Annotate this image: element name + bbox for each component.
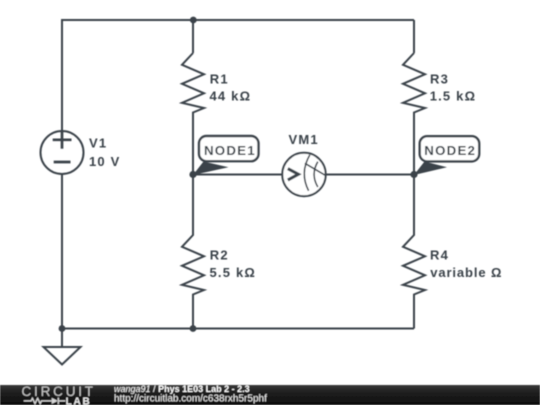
svg-text:R1: R1	[210, 72, 229, 87]
svg-text:10 V: 10 V	[89, 154, 121, 169]
svg-text:VM1: VM1	[289, 132, 319, 147]
svg-text:NODE2: NODE2	[424, 143, 476, 158]
svg-text:1.5 kΩ: 1.5 kΩ	[430, 88, 477, 103]
svg-text:NODE1: NODE1	[204, 143, 256, 158]
svg-text:variable Ω: variable Ω	[430, 265, 502, 280]
svg-text:wanga91 / Phys 1E03 Lab 2 - 2.: wanga91 / Phys 1E03 Lab 2 - 2.3	[114, 384, 250, 394]
svg-text:V1: V1	[89, 136, 107, 151]
svg-text:R2: R2	[210, 248, 229, 263]
svg-text:R3: R3	[430, 72, 449, 87]
svg-text:R4: R4	[430, 248, 449, 263]
svg-text:44 kΩ: 44 kΩ	[210, 88, 252, 103]
svg-text:LAB: LAB	[66, 397, 92, 405]
svg-text:5.5 kΩ: 5.5 kΩ	[210, 265, 257, 280]
svg-text:http://circuitlab.com/c638rxh5: http://circuitlab.com/c638rxh5r5phf	[114, 394, 267, 405]
